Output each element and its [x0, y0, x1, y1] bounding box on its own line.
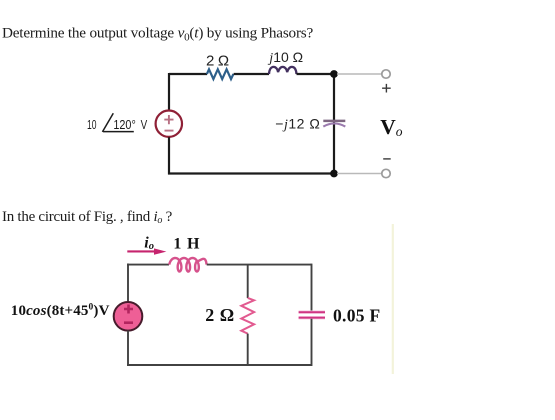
capacitor C1 -j12 ohm [323, 121, 345, 127]
label - output [383, 158, 391, 160]
bottom terminal [382, 169, 390, 177]
svg-text:In the circuit of Fig. , find: In the circuit of Fig. , find io ? [2, 209, 173, 226]
wire right vertical [333, 74, 335, 174]
wire inductor to node A [297, 73, 336, 75]
svg-text:10: 10 [87, 118, 97, 132]
svg-text:Determine the output voltage v: Determine the output voltage v0(t) by us… [2, 25, 314, 44]
top terminal [382, 70, 390, 78]
wire left vertical upper [168, 73, 170, 110]
svg-text:2 Ω: 2 Ω [205, 305, 234, 325]
svg-text:10cos(8t+450)V: 10cos(8t+450)V [11, 302, 110, 319]
wire middle vertical upper [247, 265, 249, 298]
wire inductor to right top [207, 264, 312, 266]
lead to bottom terminal [337, 173, 382, 175]
node A top junction dot [330, 70, 338, 78]
wire middle vertical lower [247, 334, 249, 366]
problem text 1 [2, 25, 314, 44]
svg-text:1 H: 1 H [173, 235, 200, 252]
wire left vertical lower [168, 137, 170, 174]
svg-text:2 Ω: 2 Ω [206, 52, 229, 69]
wire right vertical upper circuit 2 [311, 264, 313, 312]
svg-text:j10 Ω: j10 Ω [267, 49, 303, 66]
wire top-left of circuit 2 [127, 264, 169, 266]
svg-text:V: V [141, 118, 148, 132]
label + output [382, 84, 391, 93]
svg-text:0.05 F: 0.05 F [333, 306, 381, 326]
inductor L1 j10 ohm [269, 67, 297, 74]
svg-text:120°: 120° [113, 118, 135, 132]
capacitor C2 0.05F [299, 312, 325, 318]
wire left vertical lower circuit 2 [127, 331, 129, 366]
wire bottom circuit 2 [127, 364, 312, 366]
node B bottom junction dot [330, 170, 338, 178]
lead to top terminal [337, 73, 382, 75]
source VS2 10cos(8t+45)V [114, 302, 143, 331]
inductor L2 1H coil [169, 258, 206, 272]
faint page divider line [392, 224, 394, 374]
resistor R1 2ohm zigzag [207, 69, 234, 79]
wire bottom [168, 172, 335, 174]
wire left vertical upper circuit 2 [127, 265, 129, 302]
wire between resistor and inductor [234, 73, 269, 75]
svg-text:Vo: Vo [380, 115, 403, 139]
resistor R2 2ohm vertical zigzag [241, 298, 254, 334]
svg-text:−j12 Ω: −j12 Ω [275, 116, 320, 133]
wire top from source to resistor [169, 73, 207, 75]
label 10/120deg V [87, 113, 148, 132]
wire right vertical lower circuit 2 [311, 319, 313, 366]
current arrow io [127, 248, 166, 254]
svg-text:io: io [144, 234, 154, 252]
voltage source VS1 10/120 V [156, 111, 182, 137]
